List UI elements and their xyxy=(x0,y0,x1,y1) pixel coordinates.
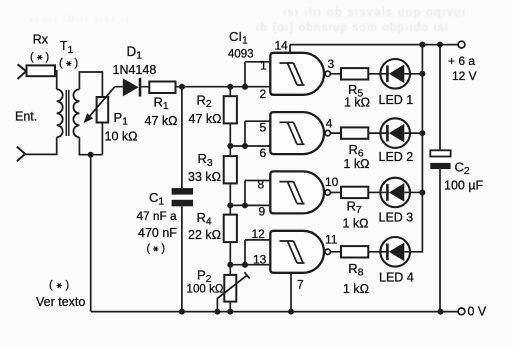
svg-text:47 kΩ: 47 kΩ xyxy=(189,112,222,126)
svg-text:5: 5 xyxy=(260,120,267,134)
svg-text:8: 8 xyxy=(258,178,265,192)
svg-text:(: ( xyxy=(59,57,63,69)
svg-text:LED 2: LED 2 xyxy=(379,150,414,164)
svg-text:22 kΩ: 22 kΩ xyxy=(188,228,221,242)
svg-text:D1: D1 xyxy=(127,44,143,62)
svg-text:(: ( xyxy=(49,279,53,291)
svg-text:7: 7 xyxy=(297,277,304,291)
svg-text:4093: 4093 xyxy=(228,48,254,60)
svg-text:Rx: Rx xyxy=(33,33,49,47)
svg-text:47 kΩ: 47 kΩ xyxy=(145,114,178,128)
svg-text:): ) xyxy=(75,57,79,69)
svg-text:Ent.: Ent. xyxy=(15,110,37,124)
svg-text:100 µF: 100 µF xyxy=(444,179,484,193)
svg-text:6: 6 xyxy=(260,146,267,160)
svg-text:R4: R4 xyxy=(197,210,212,228)
svg-text:3: 3 xyxy=(328,57,335,71)
svg-text:47 nF a: 47 nF a xyxy=(137,209,177,223)
svg-text:C1: C1 xyxy=(149,190,164,208)
svg-text:T1: T1 xyxy=(60,39,74,56)
svg-text:1 kΩ: 1 kΩ xyxy=(344,157,370,171)
svg-text:10: 10 xyxy=(325,175,339,189)
svg-text:): ) xyxy=(46,51,50,63)
svg-text:LED 3: LED 3 xyxy=(379,211,414,225)
svg-text:P1: P1 xyxy=(114,110,129,128)
svg-text:14: 14 xyxy=(275,38,289,52)
svg-text:1 kΩ: 1 kΩ xyxy=(343,216,369,230)
svg-text:13: 13 xyxy=(253,253,267,267)
svg-text:1N4148: 1N4148 xyxy=(113,63,157,77)
svg-text:CI1: CI1 xyxy=(229,29,248,47)
svg-text:LED 4: LED 4 xyxy=(379,271,414,285)
svg-text:11: 11 xyxy=(325,233,338,247)
svg-text:470 nF: 470 nF xyxy=(138,226,177,240)
svg-text:): ) xyxy=(162,242,166,254)
svg-text:+ 6 a: + 6 a xyxy=(448,54,475,68)
svg-text:R8: R8 xyxy=(348,261,363,279)
svg-text:R3: R3 xyxy=(198,151,213,169)
svg-text:): ) xyxy=(66,279,70,291)
svg-text:12 V: 12 V xyxy=(452,69,477,83)
svg-text:9: 9 xyxy=(259,205,266,219)
svg-text:1 kΩ: 1 kΩ xyxy=(343,282,369,296)
svg-text:1 kΩ: 1 kΩ xyxy=(344,95,370,109)
svg-text:10 kΩ: 10 kΩ xyxy=(105,130,138,144)
svg-text:33 kΩ: 33 kΩ xyxy=(188,170,221,184)
svg-text:ıb (oı) obnsıup som obpııdo ıs: ıb (oı) obnsıup som obpııdo ısı xyxy=(256,22,449,34)
svg-text:4: 4 xyxy=(326,117,333,131)
svg-text:12: 12 xyxy=(252,227,266,241)
svg-text:LED 1: LED 1 xyxy=(379,93,414,107)
svg-text:ıı ııı ıb ıı ıısı ıı: ıı ııı ıb ıı ıısı ıı xyxy=(30,14,131,25)
svg-text:C2: C2 xyxy=(455,160,470,178)
svg-text:100 kΩ: 100 kΩ xyxy=(187,283,224,296)
svg-text:R1: R1 xyxy=(154,95,169,113)
svg-text:0 V: 0 V xyxy=(468,305,487,319)
svg-text:R2: R2 xyxy=(197,92,212,110)
svg-text:ısı ılıı ob sısvəls uop oqıvuı: ısı ılıı ob sısvəls uop oqıvuı xyxy=(283,7,467,19)
svg-text:(: ( xyxy=(147,242,151,254)
svg-text:Ver texto: Ver texto xyxy=(36,295,85,309)
svg-text:1: 1 xyxy=(260,59,267,73)
svg-text:2: 2 xyxy=(260,87,267,101)
svg-text:(: ( xyxy=(30,51,34,63)
svg-text:R7: R7 xyxy=(347,199,362,217)
